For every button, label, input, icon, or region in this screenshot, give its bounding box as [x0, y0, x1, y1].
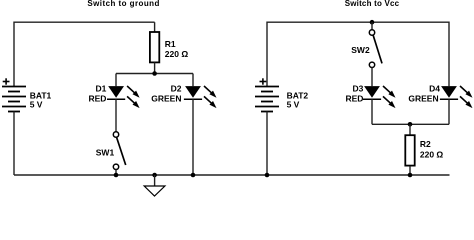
label D2	[171, 84, 182, 94]
svg-text:R1: R1	[165, 39, 176, 49]
resistor R1	[150, 32, 159, 62]
wire BAT1 negative terminal down to bottom rail	[13, 112, 15, 176]
LED D3	[363, 86, 396, 108]
label BAT1	[30, 90, 52, 100]
svg-text:5 V: 5 V	[30, 100, 43, 110]
wire D4 cathode to cathode bar	[448, 99, 450, 124]
wire BAT2 positive terminal up to top rail and across to D4	[267, 22, 449, 86]
svg-text:GREEN: GREEN	[408, 94, 438, 104]
svg-text:5 V: 5 V	[287, 100, 300, 110]
junction dot D2 bottom rail	[191, 173, 196, 178]
label D2 colour GREEN	[151, 94, 181, 104]
junction dot SW2 top rail	[370, 20, 375, 25]
svg-text:RED: RED	[345, 94, 363, 104]
label D4	[429, 84, 440, 94]
svg-text:GREEN: GREEN	[151, 94, 181, 104]
svg-text:Switch to Vcc: Switch to Vcc	[345, 0, 400, 8]
wire bar to D1 anode	[115, 74, 117, 87]
wire top rail into R1	[154, 22, 156, 32]
wire D2 cathode to bottom rail	[192, 99, 194, 175]
label BAT2 plus sign	[260, 78, 267, 84]
junction dot BAT2 bottom rail	[265, 173, 270, 178]
svg-text:D3: D3	[353, 84, 364, 94]
switch SW2	[369, 30, 382, 68]
label D1 colour RED	[88, 94, 106, 104]
LED D1	[107, 86, 140, 108]
wire R2 to bottom rail	[409, 166, 411, 175]
battery BAT1	[2, 87, 26, 112]
label BAT2	[287, 90, 309, 100]
wire SW2 to D3 anode	[371, 68, 373, 87]
label D1	[96, 84, 107, 94]
wire BAT1 positive terminal up to top rail and across to R1	[14, 22, 155, 86]
label D3 colour RED	[345, 94, 363, 104]
label BAT2 value 5 V	[287, 100, 300, 110]
wire D3 cathode to cathode bar	[371, 99, 373, 124]
svg-text:SW2: SW2	[351, 45, 370, 55]
wire SW1 to bottom rail	[115, 170, 117, 176]
junction dot R1 anode bar	[152, 71, 157, 76]
label D3	[353, 84, 364, 94]
svg-text:RED: RED	[88, 94, 106, 104]
label R2 value 220 ohm	[420, 149, 444, 159]
svg-text:220 Ω: 220 Ω	[165, 49, 189, 59]
wire anode bar D1 to D2	[116, 73, 193, 75]
svg-text:D2: D2	[171, 84, 182, 94]
battery BAT2	[255, 87, 279, 112]
svg-text:D4: D4	[429, 84, 440, 94]
label SW2	[351, 45, 370, 55]
junction dot ground stem	[152, 173, 157, 178]
wire BAT2 negative terminal down to bottom rail	[266, 112, 268, 176]
label R2	[420, 139, 431, 149]
junction dot R2 cathode bar	[408, 122, 413, 127]
label R1 value 220 ohm	[165, 49, 189, 59]
wire cathode bar D3 to D4	[372, 123, 449, 125]
LED D4	[440, 86, 473, 108]
junction dot R2 bottom rail	[408, 173, 413, 178]
junction dot SW1 bottom rail	[114, 173, 119, 178]
title: Switch to ground	[87, 0, 160, 8]
title: Switch to Vcc	[345, 0, 400, 8]
svg-text:D1: D1	[96, 84, 107, 94]
label R1	[165, 39, 176, 49]
svg-text:R2: R2	[420, 139, 431, 149]
wire D1 cathode to SW1	[115, 99, 117, 132]
wire cathode bar to R2	[409, 124, 411, 135]
wire bottom ground rail	[14, 174, 450, 176]
LED D2	[184, 86, 217, 108]
wire top rail to SW2	[371, 22, 373, 29]
svg-text:Switch to ground: Switch to ground	[87, 0, 160, 8]
svg-text:220 Ω: 220 Ω	[420, 149, 444, 159]
label D4 colour GREEN	[408, 94, 438, 104]
ground	[144, 175, 165, 196]
svg-text:SW1: SW1	[96, 147, 115, 157]
label SW1	[96, 147, 115, 157]
wire bar to D2 anode	[192, 74, 194, 87]
wire R1 to LED bar junction	[154, 62, 156, 73]
label BAT1 plus sign	[3, 78, 10, 84]
label BAT1 value 5 V	[30, 100, 43, 110]
switch SW1	[113, 132, 125, 170]
resistor R2	[405, 135, 414, 165]
